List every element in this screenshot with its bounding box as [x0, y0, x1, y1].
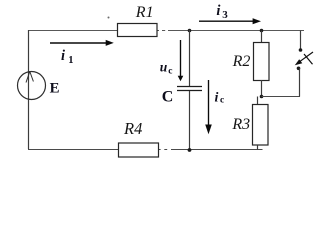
svg-text:E: E [50, 80, 60, 96]
node junction bottom capacitor branch [188, 148, 192, 152]
resistor R3 [253, 105, 269, 146]
source E [18, 72, 46, 100]
node junction top capacitor branch [188, 29, 192, 33]
svg-text:3: 3 [222, 9, 228, 21]
svg-text:R4: R4 [123, 119, 142, 138]
resistor R1 [118, 24, 158, 37]
svg-text:R1: R1 [135, 4, 154, 21]
svg-text:i: i [215, 91, 219, 106]
node switch top contact [299, 48, 303, 52]
wire switch top lead [300, 31, 302, 51]
node junction top R2 branch [260, 29, 264, 33]
wire left vertical [28, 30, 30, 149]
node switch bottom contact [297, 67, 301, 71]
switch K [295, 52, 313, 65]
wire bottom horizontal [28, 149, 263, 151]
svg-text:1: 1 [68, 55, 73, 66]
svg-text:c: c [168, 66, 172, 76]
svg-text:i: i [216, 3, 220, 19]
wire middle horizontal to switch branch [262, 96, 301, 98]
svg-text:R3: R3 [231, 116, 250, 133]
label ic [215, 91, 225, 106]
resistor R4 [119, 143, 159, 157]
voltage arrow uc [178, 40, 184, 81]
wire R2 top lead [261, 31, 263, 43]
current arrow i3 [199, 18, 261, 24]
label i1 [61, 48, 74, 66]
svg-text:C: C [162, 88, 174, 105]
svg-text:c: c [220, 96, 224, 106]
svg-text:i: i [61, 48, 65, 64]
svg-text:u: u [160, 60, 168, 75]
svg-text:R2: R2 [232, 53, 251, 70]
wire switch bottom lead [299, 68, 301, 96]
current arrow ic [205, 80, 212, 134]
label uc [160, 60, 173, 77]
wire R3 bottom lead [257, 145, 259, 150]
stray mark [108, 17, 110, 19]
resistor R2 [254, 43, 270, 81]
capacitor C [177, 30, 202, 149]
wire top horizontal [28, 30, 304, 32]
wire R2 bottom lead [261, 80, 263, 97]
wire R3 top lead [257, 97, 259, 105]
node junction R2-R3 [260, 95, 264, 99]
label i3 [216, 3, 228, 21]
current arrow i1 [50, 40, 114, 46]
